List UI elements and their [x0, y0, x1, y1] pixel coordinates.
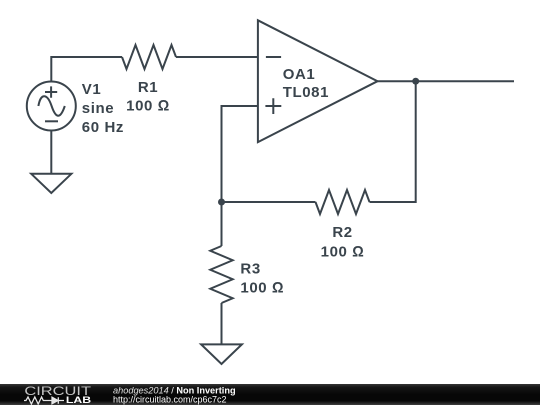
op-amp OA1 minus pin mark — [266, 56, 281, 58]
wire op-amp non-inverting input down to node A — [222, 106, 258, 202]
wire V1 to ground — [50, 131, 52, 174]
wire op-amp output — [378, 80, 515, 82]
ground below V1 — [31, 174, 71, 193]
ground below R3 — [201, 344, 242, 364]
wire V1 top to R1 — [51, 57, 122, 82]
CircuitLab logo resistor zigzag — [24, 397, 52, 404]
wire node A to R3 — [221, 202, 223, 246]
svg-text:R3: R3 — [240, 260, 260, 277]
svg-text:TL081: TL081 — [283, 84, 329, 101]
svg-text:100 Ω: 100 Ω — [240, 280, 284, 297]
V1 minus mark — [45, 120, 58, 122]
svg-text:R1: R1 — [138, 79, 158, 96]
wire R1 to op-amp inverting input — [176, 56, 258, 58]
V1 sine glyph — [38, 96, 64, 116]
svg-text:100 Ω: 100 Ω — [321, 244, 365, 261]
svg-text:OA1: OA1 — [283, 66, 316, 83]
CircuitLab logo diode — [52, 397, 64, 404]
wire R3 to ground — [221, 303, 223, 344]
svg-text:100 Ω: 100 Ω — [126, 97, 170, 114]
op-amp OA1 plus pin mark — [265, 98, 281, 114]
node A junction — [218, 199, 225, 206]
footer bar — [0, 384, 540, 405]
op-amp OA1 — [258, 20, 378, 142]
resistor R3 — [210, 246, 232, 303]
svg-text:R2: R2 — [332, 224, 352, 241]
resistor R1 — [122, 45, 176, 69]
wire node A to R2 — [222, 201, 316, 203]
svg-text:60 Hz: 60 Hz — [82, 119, 124, 136]
svg-text:V1: V1 — [82, 81, 102, 98]
svg-text:sine: sine — [82, 100, 114, 117]
resistor R2 — [316, 190, 370, 214]
voltage source V1 — [27, 82, 76, 131]
V1 plus mark — [45, 86, 57, 97]
svg-text:http://circuitlab.com/cp6c7c2: http://circuitlab.com/cp6c7c2 — [113, 395, 227, 405]
wire feedback from output node down to R2 — [370, 81, 416, 202]
svg-text:LAB: LAB — [66, 395, 92, 405]
node output junction — [412, 78, 419, 85]
